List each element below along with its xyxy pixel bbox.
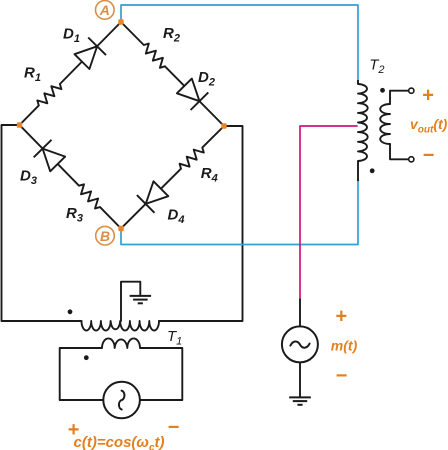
svg-text:+: + [422, 85, 434, 107]
svg-text:−: − [335, 365, 347, 387]
svg-text:−: − [168, 417, 180, 439]
svg-text:B: B [100, 228, 110, 244]
svg-text:A: A [99, 2, 110, 18]
svg-text:+: + [335, 306, 347, 328]
svg-text:−: − [422, 145, 434, 167]
svg-text:m(t): m(t) [331, 338, 358, 354]
